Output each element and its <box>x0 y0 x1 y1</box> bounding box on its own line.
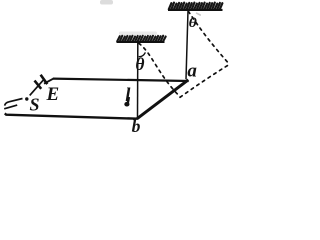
angle arc left <box>139 52 146 56</box>
svg-text:E: E <box>46 84 60 105</box>
faint bleed above left hatch <box>119 32 157 36</box>
ceiling right line <box>168 9 223 11</box>
wire hook to switch <box>5 99 23 106</box>
ceiling left line <box>117 41 165 43</box>
battery plate 2 <box>41 75 48 84</box>
bottom rail wire <box>5 113 138 118</box>
ceiling left hatch <box>117 36 166 42</box>
svg-text:a: a <box>187 60 197 81</box>
svg-text:S: S <box>30 95 40 115</box>
string right <box>186 11 188 80</box>
svg-text:θ: θ <box>135 54 144 74</box>
label l foot blob <box>124 102 129 107</box>
wire stub bottom-left <box>4 105 17 109</box>
string left <box>137 43 139 118</box>
label l foot stroke <box>128 97 129 103</box>
battery plate 1 <box>35 81 42 89</box>
dashed string right deflected <box>188 11 229 64</box>
ceiling right hatch <box>169 3 223 10</box>
svg-text:θ: θ <box>189 16 198 31</box>
svg-text:b: b <box>132 116 141 134</box>
faint scan smudge top-left <box>100 0 113 5</box>
rod ab <box>137 80 188 119</box>
top rail wire <box>53 79 189 81</box>
faint scan smear near right theta <box>197 13 201 15</box>
dashed rod deflected <box>180 64 230 97</box>
dashed string left deflected <box>139 43 181 97</box>
switch blade <box>30 79 45 96</box>
switch pivot <box>25 97 28 100</box>
wire battery to rail <box>44 79 53 84</box>
